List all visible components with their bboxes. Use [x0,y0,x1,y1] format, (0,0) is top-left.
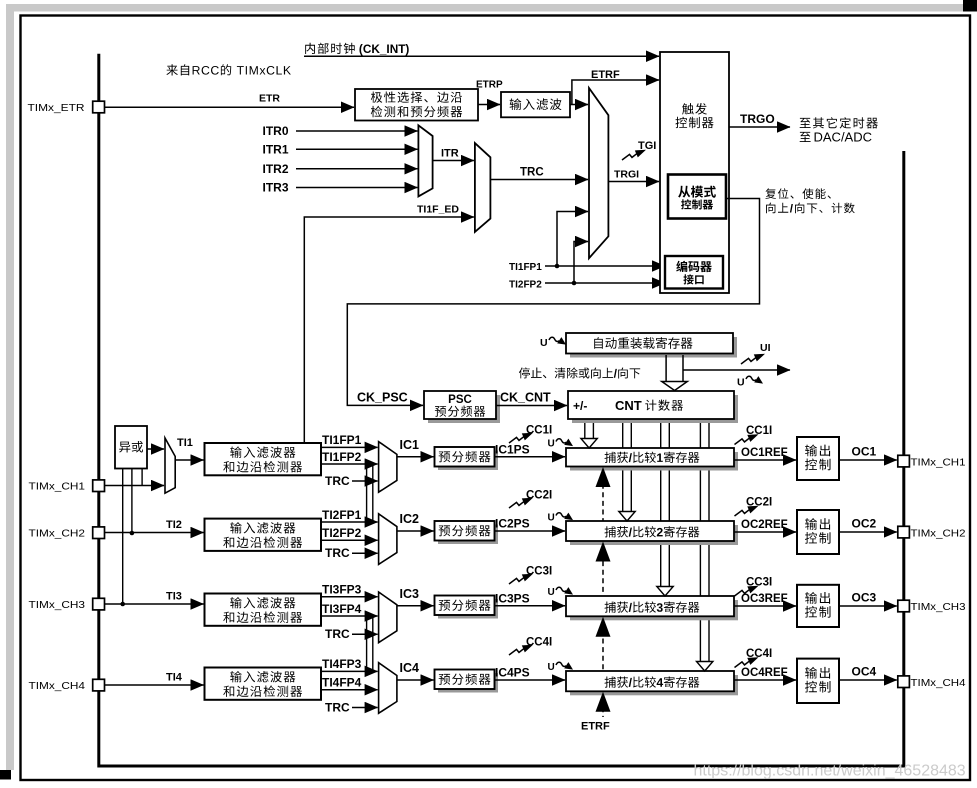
svg-text:TI4: TI4 [166,672,183,684]
svg-text:U: U [548,439,555,450]
block 预分频器 channel 1 [438,451,498,471]
wire TI1FP1 to encoder interface [545,265,665,267]
svg-text:ITR: ITR [441,148,459,160]
svg-text:TI1FP2: TI1FP2 [322,450,362,464]
svg-text:IC3PS: IC3PS [495,591,530,605]
svg-text:PSC: PSC [448,394,472,406]
svg-text:TI2FP2: TI2FP2 [509,279,542,290]
svg-text:UI: UI [760,342,771,354]
block 输入滤波器和边沿检测器 channel 2 [205,519,322,551]
arrowhead ETRF into register 3 [596,617,611,637]
svg-text:TRGI: TRGI [614,169,639,181]
pin TIMx_CH4 left [93,679,105,691]
block PSC 预分频器 (prescaler) [428,395,500,423]
svg-text:TRC: TRC [325,546,350,560]
mux TRC selector [475,143,491,232]
interrupt symbol CC1I left [509,433,533,443]
wire OC4 [839,679,897,681]
wire OC3REF [734,605,796,607]
interrupt symbol CC3I left [509,574,533,584]
svg-text:TRGO: TRGO [740,112,775,126]
svg-text:https://blog.csdn.net/weixin_4: https://blog.csdn.net/weixin_46528483 [694,763,966,780]
wire slave mode controller to CK_PSC [347,199,759,406]
block 预分频器 channel 2 [438,525,498,545]
hollow arrowhead counter to register 2 [619,512,635,522]
wire TI1 [175,459,203,461]
svg-text:TIMx_CH1: TIMx_CH1 [911,456,966,468]
block 输出控制 channel 4 [797,659,839,703]
wire TI3FP4 [321,615,378,617]
junction dot XOR-CH2 [130,531,135,536]
block 输入滤波器和边沿检测器 channel 3 [205,594,322,626]
svg-text:ETRF: ETRF [581,721,610,733]
block 输入滤波器和边沿检测器 channel 1 [205,443,322,475]
wire TRC row 3 [352,633,378,635]
svg-text:TIMx_ETR: TIMx_ETR [28,102,85,114]
svg-text:TRC: TRC [325,700,350,714]
wires XOR inputs from CH1-CH3 [123,469,142,605]
wire TI2FP2 [321,539,378,541]
svg-text:OC1: OC1 [852,445,877,459]
block 输出控制 channel 2 [797,510,839,554]
svg-text:TI3: TI3 [166,591,182,603]
mux ITR selector [418,125,432,196]
interrupt symbol CC1I right [735,434,759,444]
wire CK_INT to trigger controller [304,55,659,57]
block 异或 (XOR) [115,426,147,469]
svg-text:TRC: TRC [325,627,350,641]
wire update event out [683,369,790,371]
svg-text:OC1REF: OC1REF [741,447,788,459]
junction dot XOR-CH3 [120,602,125,607]
wire CK_CNT [496,405,567,407]
block 输入滤波器和边沿检测器 channel 4 [205,668,322,700]
wire TI2FP1 [321,521,378,523]
pin TIMx_ETR [93,101,105,113]
pin TIMx_CH3 right [898,600,910,612]
crossover wires TI1FP2/TI2FP1 [367,464,373,522]
svg-text:IC1PS: IC1PS [495,442,530,456]
svg-text:OC4REF: OC4REF [741,667,788,679]
label 内部时钟 (CK_INT) [305,43,355,54]
svg-text:ITR3: ITR3 [263,181,289,195]
svg-text:CK_PSC: CK_PSC [357,391,408,405]
register 捕获/比较2寄存器 [570,525,738,545]
svg-text:ETRP: ETRP [476,80,503,91]
hollow arrowhead counter to register 4 [697,662,713,672]
svg-text:OC3: OC3 [852,591,877,605]
wire TRGI [608,181,659,183]
wire TI3 from pin [105,603,204,605]
label 至其它定时器 至DAC/ADC [800,117,878,128]
wire OC4REF [734,679,796,681]
wire TI2 from pin [105,532,204,534]
svg-text:TIMx_CH2: TIMx_CH2 [29,528,86,540]
svg-text:TIMx_CH3: TIMx_CH3 [29,599,86,611]
arrowhead ETRF into register 2 [596,542,611,562]
wire OC2REF [734,531,796,533]
wire TI1FP1 [321,446,378,448]
interrupt symbol CC2I left [509,498,533,508]
svg-text:IC1: IC1 [400,438,420,452]
mux trigger input selector (big) [589,88,608,258]
wire TI4FP3 [321,670,378,672]
wire TI2FP2 branch to big mux [574,242,588,284]
svg-text:U: U [548,587,555,598]
block 预分频器 channel 3 [438,599,498,619]
wire IC1PS [495,456,566,458]
svg-text:DAC/ADC: DAC/ADC [814,130,873,145]
svg-text:TRC: TRC [325,474,350,488]
wire TI4 from pin [105,684,204,686]
pin TIMx_CH1 right [898,455,910,467]
wire TI2FP2 to encoder interface [545,282,665,284]
black corner square top-right [963,0,977,12]
block 输出控制 channel 3 [797,585,839,627]
wire OC1REF [734,459,796,461]
wire IC3 [397,605,434,607]
wire filter to mux [570,104,588,106]
pin TIMx_CH1 left [93,480,105,492]
interrupt symbol CC4I left [509,645,533,655]
dashed wire ETRF to capture registers [602,467,604,718]
interrupt symbol TGI [622,150,646,160]
block 极性选择、边沿检测和预分频器 [355,89,478,121]
counter block CNT 计数器 [572,395,738,423]
wire TRC row 4 [352,707,378,709]
svg-text:TI1F_ED: TI1F_ED [417,204,459,216]
pin TIMx_CH2 right [898,526,910,538]
junction dot TI1FP1 [555,264,560,269]
wire IC2 [397,530,434,532]
mux IC3 selector [379,592,397,643]
gray frame band top [6,4,963,12]
svg-text:ITR2: ITR2 [263,162,289,176]
svg-text:TIMx_CH3: TIMx_CH3 [911,601,966,613]
wire TRGO [729,126,790,128]
wire XOR output [147,448,164,450]
svg-text:U: U [548,662,555,673]
svg-text:ITR0: ITR0 [263,124,289,138]
svg-text:TIMx_CH4: TIMx_CH4 [911,677,966,689]
wire IC3PS [495,605,566,607]
block 预分频器 channel 4 [438,673,498,693]
wire TI1FP2 [321,463,378,465]
wires ITR0-ITR3 [296,130,417,132]
arrowhead ETRF into register 4 [596,692,611,712]
register 捕获/比较3寄存器 [570,600,738,620]
wire TRC to big mux [490,179,588,181]
hollow arrowhead counter to register 3 [657,587,673,597]
register 自动重装载寄存器 (auto-reload) [570,337,737,358]
svg-text:OC2: OC2 [852,517,877,531]
svg-text:OC2REF: OC2REF [741,519,788,531]
svg-text:TI2: TI2 [166,519,182,531]
svg-text:ETRF: ETRF [591,69,620,81]
wire TRC row 2 [352,552,378,554]
svg-text:U: U [540,337,548,349]
svg-text:IC2: IC2 [400,512,420,526]
wire IC2PS [495,530,566,532]
svg-text:U: U [548,513,555,524]
svg-text:TI1FP1: TI1FP1 [322,433,362,447]
arrowhead ETRF into register 1 [596,467,611,487]
svg-text:CK_CNT: CK_CNT [500,391,551,405]
interrupt symbol CC4I right [735,657,759,667]
mux IC1 selector [379,442,397,493]
svg-text:IC2PS: IC2PS [495,517,530,531]
svg-text:IC3: IC3 [400,587,420,601]
black corner square bottom-left [0,770,11,780]
svg-text:U: U [737,377,745,389]
wire TRC row 1 [352,480,378,482]
wire TI3FP3 [321,596,378,598]
pin TIMx_CH4 right [898,676,910,688]
hollow arrow shafts counter to capture registers [585,419,594,440]
svg-text:TIMx_CH2: TIMx_CH2 [911,527,966,539]
svg-text:TI4FP3: TI4FP3 [322,657,362,671]
svg-text:TI1FP1: TI1FP1 [509,262,542,273]
wire TI4FP4 [321,689,378,691]
mux IC2 selector [379,514,397,565]
block 触发控制器 (trigger controller) [660,52,729,293]
block 从模式控制器 (slave mode controller) [668,175,726,219]
label 复位、使能、向上/向下、计数 [765,188,831,199]
svg-text:+/-: +/- [573,399,587,413]
svg-text:TI4FP4: TI4FP4 [322,676,362,690]
wire OC1 [839,459,897,461]
svg-text:OC4: OC4 [852,665,877,679]
interrupt symbol CC2I right [735,506,759,516]
block 编码器接口 (encoder interface) [665,256,723,289]
svg-text:ETR: ETR [259,93,280,105]
block 输出控制 channel 1 [797,437,839,480]
mux IC4 selector [379,663,397,714]
svg-text:CNT: CNT [615,398,642,413]
block 输入滤波 [501,92,570,117]
interrupt symbol UI [741,354,765,364]
crossover wires TI3FP4/TI4FP3 [367,616,373,671]
wire OC3 [839,605,897,607]
svg-text:TI3FP4: TI3FP4 [322,602,362,616]
wire OC2 [839,531,897,533]
junction dot TI2FP2 [572,281,577,286]
wire IC4PS [495,679,566,681]
label 停止、清除或向上/向下 [519,367,640,378]
svg-text:ITR1: ITR1 [263,142,289,156]
wire ETR [105,106,355,108]
svg-text:TGI: TGI [638,140,656,152]
wire from CH1 pin to TI1 mux [105,485,165,487]
wire IC4 [397,679,434,681]
wire ITR [433,160,474,162]
mux TI1 selector [165,438,175,493]
svg-text:TIMx_CH4: TIMx_CH4 [29,680,86,692]
hollow arrow auto-reload to counter [666,355,683,382]
label 来自RCC的TIMxCLK [166,64,291,75]
pin TIMx_CH3 left [93,598,105,610]
svg-text:TI1: TI1 [177,437,193,449]
svg-text:OC3REF: OC3REF [741,593,788,605]
hollow arrowhead counter to register 1 [581,439,597,449]
wire TI1F_ED from input filter 1 [304,217,474,443]
svg-text:TI2FP1: TI2FP1 [322,508,362,522]
register 捕获/比较1寄存器 [570,452,738,471]
svg-text:TIMx_CH1: TIMx_CH1 [29,481,86,493]
wire ETRF to trigger controller [572,80,659,105]
svg-text:TRC: TRC [520,167,544,179]
interrupt symbol CC3I right [735,586,759,596]
svg-text:IC4: IC4 [400,661,420,675]
wire ETRP [478,104,500,106]
svg-text:TI2FP2: TI2FP2 [322,526,362,540]
wire IC1 [397,456,434,458]
register 捕获/比较4寄存器 [570,675,738,695]
svg-text:(CK_INT): (CK_INT) [359,42,410,56]
pin TIMx_CH2 left [93,527,105,539]
wire TI1FP1 branch to big mux [557,212,588,267]
gray frame band left [6,4,14,770]
bus line left-bottom-right (TIMx internal bus) [99,54,904,766]
svg-text:TI3FP3: TI3FP3 [322,583,362,597]
svg-text:IC4PS: IC4PS [495,666,530,680]
